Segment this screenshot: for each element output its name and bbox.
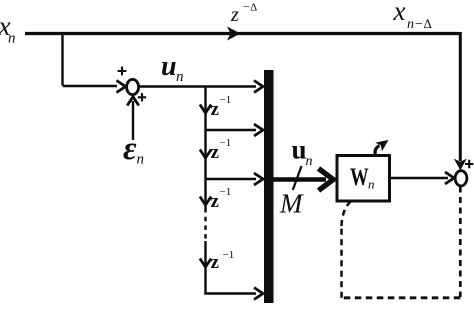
summer S2 (455, 171, 467, 186)
arrowhead down into right summer (454, 159, 467, 171)
svg-text:z: z (211, 99, 220, 120)
wire dashed error feedback right vertical (459, 187, 462, 298)
svg-text:n: n (137, 152, 145, 168)
svg-text:n: n (8, 31, 16, 47)
arrowhead tap 2 into bar (254, 124, 263, 136)
svg-text:n: n (176, 69, 184, 85)
wire dashed feedback left vertical (340, 225, 343, 298)
node A branch point (61, 34, 63, 86)
svg-text:−1: −1 (220, 186, 232, 198)
label x_n (0, 11, 16, 47)
svg-text:z: z (211, 252, 220, 273)
svg-text:u: u (161, 51, 177, 82)
summer S1 (127, 79, 139, 94)
svg-text:n−Δ: n−Δ (407, 16, 432, 32)
arrowhead adaptation (375, 140, 388, 151)
adaptation arrow on W box (375, 146, 379, 157)
label u_n after summer (161, 51, 184, 85)
wire dashed feedback curve into W box (342, 202, 351, 227)
wire tap 3 to bar (206, 178, 257, 180)
svg-text:x: x (393, 0, 406, 26)
wire tap vertical solid upper (204, 87, 206, 209)
wire thick vector arrow to W box (274, 177, 327, 181)
label plus bottom of left summer (138, 93, 146, 101)
arrowhead on top line (z-delta) (227, 27, 241, 41)
svg-text:n: n (368, 177, 375, 192)
label epsilon_n (123, 131, 144, 168)
arrowhead u_n into bar (254, 81, 263, 93)
block W_n box (337, 156, 390, 202)
wire dashed feedback bottom horizontal (342, 296, 461, 299)
svg-text:M: M (279, 189, 304, 219)
svg-text:z: z (230, 4, 239, 26)
svg-text:u: u (292, 135, 307, 165)
label u_n vector bold (292, 135, 313, 170)
wire right vertical down to summer (459, 32, 462, 161)
label z^-1 delay 2 (211, 137, 232, 163)
svg-text:n: n (306, 154, 313, 169)
arrowhead delay 4 (200, 259, 211, 268)
wire tap vertical dashed middle (204, 208, 206, 241)
svg-text:−1: −1 (220, 94, 232, 106)
svg-text:−1: −1 (223, 249, 235, 261)
slash M dimension mark (293, 166, 302, 190)
svg-text:W: W (350, 162, 369, 191)
svg-text:z: z (211, 191, 220, 212)
label plus top of left summer (118, 67, 127, 76)
arrowhead tap 3 into bar (254, 173, 263, 185)
wire epsilon arrow (132, 101, 134, 140)
wire top horizontal x_n to corner (25, 32, 459, 35)
label W_n in box (350, 162, 375, 192)
arrowhead epsilon into summer (127, 97, 139, 106)
svg-text:−Δ: −Δ (242, 0, 257, 14)
wire u_n from summer to bar (139, 85, 256, 88)
bar (tap concatenation) (264, 70, 274, 303)
svg-text:ε: ε (123, 131, 137, 167)
arrowhead tap bottom into bar (254, 288, 263, 300)
label plus right summer (465, 160, 473, 168)
label x_n-delta (393, 0, 432, 32)
wire W output to right summer (390, 177, 449, 179)
label z^-1 delay 4 (211, 249, 235, 273)
arrowhead delay 1 (200, 105, 211, 114)
arrowhead into left summer (117, 81, 126, 93)
arrowhead thick into W box (319, 169, 334, 191)
wire tap 2 to bar (206, 129, 257, 131)
arrowhead delay 2 (200, 150, 211, 159)
label z^-delta (230, 0, 257, 26)
label z^-1 delay 3 (211, 186, 232, 212)
arrowhead delay 3 (200, 197, 211, 206)
arrowhead into right summer (445, 172, 454, 184)
wire tap bottom to bar (204, 292, 256, 295)
svg-text:−1: −1 (220, 137, 232, 149)
label z^-1 delay 1 (211, 94, 232, 120)
wire tap vertical solid lower (204, 241, 206, 294)
wire branch to left summer (63, 85, 118, 87)
svg-text:z: z (211, 142, 220, 163)
